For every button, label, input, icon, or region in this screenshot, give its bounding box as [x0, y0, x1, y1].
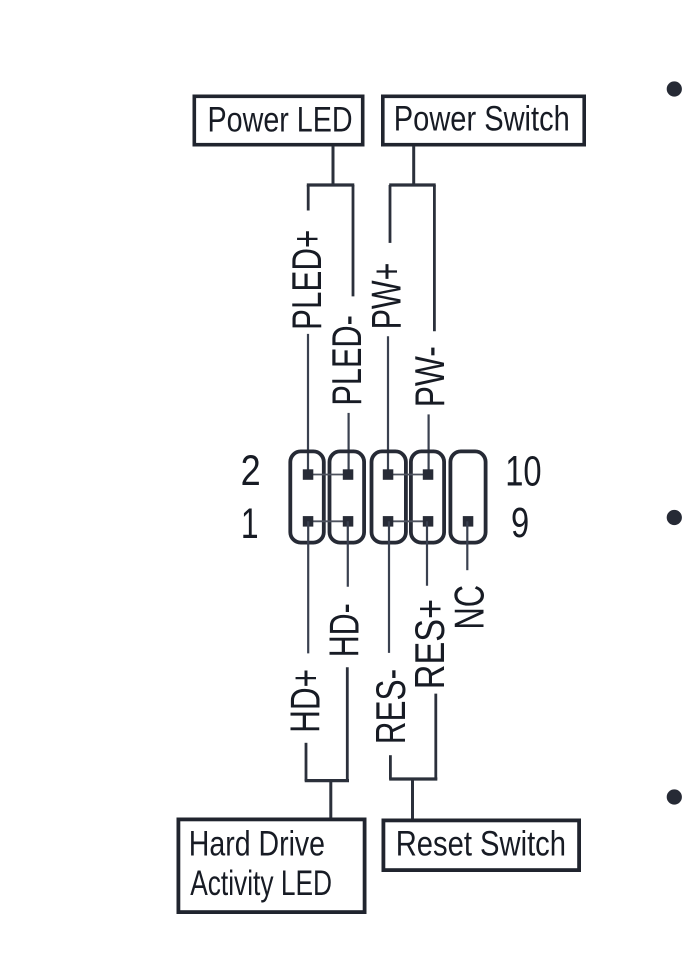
- wire PW- upper: [433, 185, 436, 331]
- pin 9: [463, 516, 474, 527]
- pin 4: [343, 469, 354, 480]
- svg-text:HD+: HD+: [282, 669, 328, 733]
- bullet bottom: [667, 789, 682, 804]
- pin link pins 2-4: [308, 474, 348, 476]
- wire stub from Power Switch box: [412, 146, 415, 186]
- bullet middle: [667, 510, 682, 525]
- pin 5: [383, 516, 394, 527]
- wire stub to Reset Switch box: [411, 778, 414, 819]
- svg-text:10: 10: [505, 447, 541, 495]
- wire RES- elbow vertical: [389, 755, 392, 779]
- pin 6: [383, 469, 394, 480]
- wire elbow Power Switch: [389, 183, 436, 186]
- box Reset Switch: [383, 820, 579, 870]
- svg-text:Power Switch: Power Switch: [394, 99, 570, 138]
- svg-text:PLED+: PLED+: [284, 230, 330, 330]
- box Power LED: [194, 96, 362, 144]
- pin link pins 1-3: [308, 520, 348, 522]
- connector housing column 1: [290, 451, 324, 542]
- svg-text:PW-: PW-: [407, 346, 453, 407]
- wire PW+ to pin 6: [387, 336, 389, 474]
- wire stub from Power LED box: [332, 146, 335, 186]
- svg-text:HD-: HD-: [321, 603, 368, 657]
- wire HD- from pin 3: [347, 521, 349, 586]
- pin link pins 6-8: [388, 474, 428, 476]
- svg-text:Power LED: Power LED: [208, 100, 353, 139]
- wire elbow Power LED: [307, 183, 355, 186]
- pin 8: [423, 469, 434, 480]
- connector housing column 5: [450, 451, 485, 542]
- wire elbow Reset Switch: [389, 777, 437, 780]
- svg-text:NC: NC: [446, 585, 493, 630]
- wire stub to Hard Drive box: [329, 780, 332, 819]
- wire PLED- upper: [352, 185, 355, 296]
- connector housing column 3: [372, 451, 406, 542]
- bullet top: [667, 81, 682, 96]
- connector housing column 2: [330, 451, 365, 542]
- box Hard Drive Activity LED: [178, 819, 364, 912]
- wire HD+ elbow vertical: [305, 743, 308, 781]
- svg-text:Reset Switch: Reset Switch: [396, 824, 566, 863]
- svg-text:RES-: RES-: [368, 669, 414, 744]
- wire RES+ long: [434, 694, 437, 780]
- svg-text:Activity LED: Activity LED: [190, 864, 332, 904]
- svg-text:PW+: PW+: [363, 263, 410, 330]
- connector housing column 4: [411, 451, 444, 542]
- wire PW+ upper stub: [389, 185, 392, 243]
- pin 1: [303, 516, 314, 527]
- wire PLED+ upper stub: [307, 185, 310, 211]
- svg-text:2: 2: [241, 447, 261, 495]
- pin 3: [343, 516, 354, 527]
- wire NC from pin 9: [466, 521, 468, 570]
- wire HD+ from pin 1: [307, 521, 309, 653]
- svg-text:9: 9: [511, 499, 529, 547]
- pin 2: [303, 469, 314, 480]
- pin link pins 5-7: [388, 520, 428, 522]
- svg-text:1: 1: [241, 501, 259, 549]
- wire RES- from pin 5: [388, 521, 390, 653]
- wire elbow Hard Drive LED: [305, 779, 349, 782]
- wire HD- long: [346, 667, 349, 781]
- pin 7: [423, 516, 434, 527]
- wire PLED- to pin 4: [348, 413, 350, 475]
- wire RES+ from pin 7: [426, 521, 428, 585]
- box Power Switch: [383, 96, 584, 144]
- wire PW- to pin 8: [428, 414, 430, 474]
- wire PLED+ to pin 2: [307, 334, 309, 475]
- svg-text:Hard Drive: Hard Drive: [189, 824, 325, 863]
